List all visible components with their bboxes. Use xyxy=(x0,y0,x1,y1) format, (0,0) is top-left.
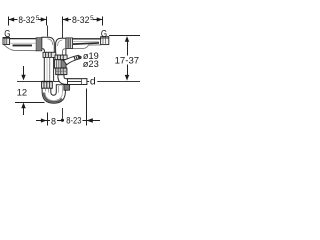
svg-text:5: 5 xyxy=(36,15,40,22)
svg-text:ø23: ø23 xyxy=(83,59,99,70)
svg-text:5: 5 xyxy=(90,15,94,22)
svg-text:17-37: 17-37 xyxy=(115,55,140,66)
svg-text:12: 12 xyxy=(17,86,27,97)
svg-text:8-32: 8-32 xyxy=(18,15,35,25)
svg-text:8: 8 xyxy=(51,116,56,126)
svg-text:8-23: 8-23 xyxy=(66,116,81,126)
svg-text:d: d xyxy=(90,76,96,88)
svg-text:8-32: 8-32 xyxy=(72,15,90,25)
